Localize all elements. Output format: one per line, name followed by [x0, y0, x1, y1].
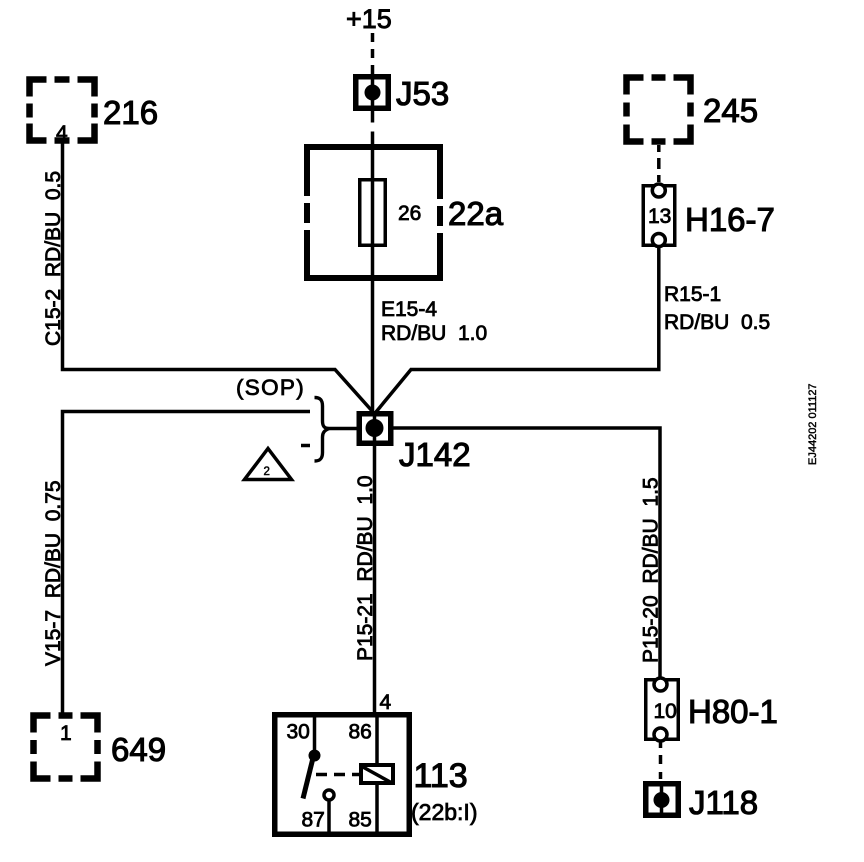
wire P15-21 from J142 down to relay 113	[373, 446, 377, 712]
svg-text:1: 1	[60, 722, 72, 745]
relay contact 87 lead	[327, 800, 331, 834]
svg-text:216: 216	[103, 94, 158, 131]
SOP brace	[315, 398, 330, 462]
relay 113 box	[275, 715, 410, 835]
svg-text:H80-1: H80-1	[688, 693, 778, 730]
svg-text:87: 87	[302, 809, 325, 832]
splice connector H80-1	[646, 678, 679, 741]
wire dashed H80-1 to J118	[659, 741, 663, 781]
svg-text:C15-2 RD/BU 0.5: C15-2 RD/BU 0.5	[42, 171, 65, 346]
connector 216 (dashed box)	[30, 80, 95, 141]
SOP branch wire	[63, 412, 311, 719]
wire E15-4 vertical through fuse box down to junction J142	[371, 132, 375, 412]
svg-text:86: 86	[349, 721, 372, 744]
junction J142	[359, 411, 391, 446]
ground point J118	[646, 781, 679, 818]
svg-text:30: 30	[287, 721, 310, 744]
svg-text:P15-20 RD/BU 1.5: P15-20 RD/BU 1.5	[640, 477, 663, 663]
svg-text:4: 4	[380, 691, 392, 714]
svg-text:13: 13	[648, 205, 671, 228]
relay contact pivot dot	[309, 750, 321, 762]
wire P15-20 from J142 right and down to H80-1	[394, 428, 661, 679]
svg-text:J142: J142	[399, 436, 471, 473]
svg-text:10: 10	[654, 700, 677, 723]
relay pin 30 lead	[313, 712, 317, 752]
connector 245 (dashed box)	[627, 78, 691, 142]
svg-text:J53: J53	[396, 75, 449, 112]
wire C15-2 from 216 down, right, diagonal to J142	[63, 138, 374, 412]
svg-text:R15-1: R15-1	[664, 283, 721, 306]
svg-text:+15: +15	[346, 4, 392, 34]
connector 649 (dashed box)	[34, 716, 98, 779]
wire dashed +15 to J53	[371, 33, 375, 74]
fuse 26 element	[360, 180, 386, 246]
svg-text:E15-4: E15-4	[381, 298, 437, 321]
wire dashed J53 to fuse box 22a	[371, 111, 375, 132]
svg-text:RD/BU 0.5: RD/BU 0.5	[664, 311, 770, 334]
relay switch blade	[303, 760, 313, 799]
component box 22a (fuse holder)	[300, 147, 447, 278]
svg-text:J118: J118	[689, 784, 758, 821]
svg-text:V15-7 RD/BU 0.75: V15-7 RD/BU 0.75	[42, 480, 65, 666]
wire R15-1 from H16-7 down, left, diagonal to J142	[376, 246, 659, 412]
svg-text:85: 85	[349, 809, 372, 832]
svg-text:H16-7: H16-7	[685, 201, 775, 238]
warning triangle 2	[245, 449, 292, 480]
relay pin 86 lead	[375, 712, 379, 765]
svg-text:(22b:I): (22b:I)	[411, 799, 477, 825]
svg-text:113: 113	[414, 757, 468, 795]
svg-text:(SOP): (SOP)	[236, 375, 305, 400]
svg-text:26: 26	[398, 202, 421, 225]
relay pin 85 lead	[375, 783, 379, 834]
svg-text:P15-21 RD/BU 1.0: P15-21 RD/BU 1.0	[354, 475, 377, 661]
splice connector H16-7	[643, 184, 675, 247]
svg-text:649: 649	[111, 731, 166, 768]
svg-text:EJ44202 011127: EJ44202 011127	[807, 383, 819, 465]
relay contact 87 circle	[324, 790, 334, 800]
wire stub brace to J142	[329, 427, 357, 431]
svg-text:RD/BU 1.0: RD/BU 1.0	[381, 322, 487, 345]
svg-text:2: 2	[264, 466, 270, 478]
relay coil	[361, 765, 393, 783]
wire dashed 245 to H16-7	[657, 145, 661, 184]
connection point J53	[356, 74, 389, 111]
svg-text:245: 245	[703, 92, 758, 129]
minus mark	[301, 444, 310, 448]
relay mechanical link (dashed)	[316, 773, 359, 777]
svg-text:22a: 22a	[448, 195, 504, 232]
